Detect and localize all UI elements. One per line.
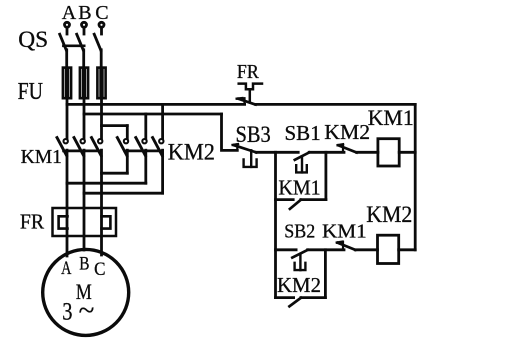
switch QS pole 2 blade <box>77 34 84 50</box>
svg-text:KM2: KM2 <box>324 120 370 144</box>
wire KM2 c6 bottom drop <box>161 150 164 193</box>
button SB2 (NO start rev) <box>292 250 307 270</box>
wire FR contact to right rail <box>256 103 416 106</box>
coil KM2 <box>378 235 399 263</box>
contactor KM2 main contact 4 <box>117 138 128 156</box>
svg-text:SB1: SB1 <box>285 121 321 145</box>
contact KM2 interlock (NC) <box>338 144 357 152</box>
fuse FU3 <box>97 68 105 99</box>
svg-text:KM1: KM1 <box>322 220 367 242</box>
wire L1 tap (phase A to FR and KM2 c6) <box>67 103 245 106</box>
control feed drop to SB3 <box>222 114 238 150</box>
button SB1 (NO start fwd) <box>295 152 309 172</box>
thermal relay FR control contact (NC) <box>237 84 262 105</box>
svg-text:B: B <box>78 2 91 24</box>
svg-text:FR: FR <box>20 209 44 233</box>
contactor KM1 main contact 3 <box>92 138 103 156</box>
wire B stub <box>83 28 86 34</box>
wire KM2 c5 bottom drop <box>144 150 147 183</box>
svg-text:SB3: SB3 <box>236 122 271 147</box>
contact KM1 interlock (NC) <box>337 242 356 250</box>
contact KM2 self-holding (NO) <box>276 250 326 306</box>
thermal relay FR box <box>53 208 117 236</box>
node B terminal <box>82 22 87 27</box>
fuse FU2 <box>80 68 88 99</box>
svg-text:FU: FU <box>18 79 43 105</box>
contactor KM1 linkage bar <box>64 150 100 153</box>
wire phase B: QS to fuse FU2 and down to KM1 contact <box>82 50 85 68</box>
wire KM2 interlock to KM1 coil <box>357 151 378 154</box>
contactor KM2 main contact 5 <box>136 138 147 156</box>
contactor KM2 main contact 6 <box>153 138 164 156</box>
svg-text:QS: QS <box>18 27 48 52</box>
svg-text:KM2: KM2 <box>277 273 321 297</box>
contact KM1 self-holding (NO) <box>276 152 326 209</box>
wire KM1 interlock to KM2 coil <box>355 248 377 251</box>
svg-text:B: B <box>79 253 89 274</box>
fuse FU1 <box>63 68 71 99</box>
wire SB2 row from left rail <box>276 248 297 251</box>
svg-text:KM1: KM1 <box>21 146 62 168</box>
svg-text:FR: FR <box>237 61 259 83</box>
svg-text:KM1: KM1 <box>278 176 320 200</box>
wire cross c5 to phase A column <box>67 182 146 185</box>
thermal relay FR heater element left <box>59 216 68 228</box>
svg-text:A: A <box>62 2 77 24</box>
wire phase A: QS to fuse FU1 and down to KM1 contact <box>65 50 68 68</box>
wire drop to KM2 contact c5 <box>144 114 147 138</box>
svg-text:KM1: KM1 <box>368 105 414 130</box>
wire KM1 c1 bottom to FR <box>66 150 69 256</box>
switch QS linkage bar <box>63 44 84 47</box>
svg-text:A: A <box>61 258 71 279</box>
contactor KM2 linkage bar <box>125 150 162 153</box>
contactor KM1 main contact 2 <box>74 138 85 156</box>
wire right rail <box>414 104 417 249</box>
wire SB3 to SB1 <box>256 151 298 154</box>
wire KM1 c3 bottom to FR <box>100 150 103 255</box>
wire cross c6 to phase B column <box>84 192 163 195</box>
motor M circle <box>43 249 129 335</box>
svg-text:KM2: KM2 <box>168 140 215 165</box>
wire KM2 coil to right rail <box>399 248 416 251</box>
wire drop to KM2 contact c4 <box>126 126 129 139</box>
wire SB2 to KM1 interlock <box>308 248 344 251</box>
button SB3 (NC stop) <box>233 144 257 167</box>
wire SB1 to KM2 interlock <box>309 151 344 154</box>
svg-text:C: C <box>95 2 108 24</box>
wire C stub <box>100 28 103 34</box>
wire KM1 coil to right rail <box>399 151 415 154</box>
wire phase C: QS to fuse FU3 and down to KM1 contact <box>100 50 103 68</box>
wire L3 tap (phase C to KM2 c4) <box>102 124 128 127</box>
switch QS pole 1 blade <box>60 34 67 50</box>
svg-text:C: C <box>94 259 105 280</box>
svg-text:KM2: KM2 <box>366 202 412 227</box>
thermal relay FR heater element right <box>102 216 111 228</box>
coil KM1 <box>378 139 399 166</box>
wire KM1 c2 bottom to FR <box>83 150 86 250</box>
svg-text:3: 3 <box>62 298 72 325</box>
wire KM2 c4 bottom drop <box>126 150 129 173</box>
node C terminal <box>99 22 104 27</box>
contactor KM1 main contact 1 <box>57 138 68 156</box>
wire drop to KM2 contact c6 <box>161 104 164 138</box>
wire left branch rail <box>274 152 277 297</box>
wire L2 tap (phase B to control drop and KM2 c5) <box>84 113 222 116</box>
svg-text:SB2: SB2 <box>284 220 315 242</box>
node A terminal <box>65 22 70 27</box>
switch QS pole 3 blade <box>94 34 101 50</box>
wire A stub <box>66 28 69 34</box>
svg-text:~: ~ <box>79 295 95 327</box>
wire cross c4 to phase C column <box>102 172 128 175</box>
